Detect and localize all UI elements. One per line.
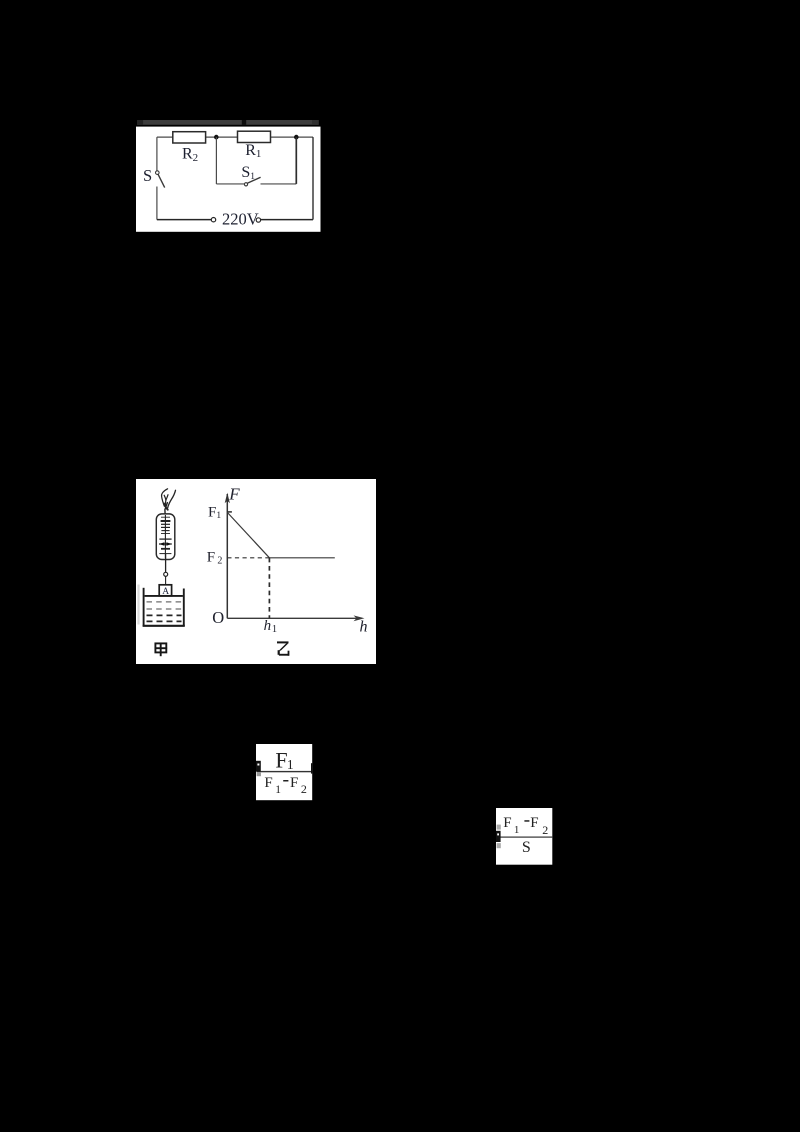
svg-text:F: F	[275, 747, 287, 772]
label yi (乙)	[277, 641, 289, 655]
wire: bottom rail right	[261, 219, 313, 221]
white panel	[136, 127, 321, 232]
terminal: left circle	[211, 218, 215, 222]
svg-text:2: 2	[542, 822, 548, 836]
wire: right vertical	[312, 137, 314, 220]
switch S1	[244, 177, 260, 186]
container right wall	[182, 588, 184, 626]
support squiggle hatching	[161, 488, 175, 509]
svg-text:F: F	[228, 484, 240, 503]
block A	[159, 584, 171, 595]
container left wall	[142, 587, 144, 625]
graph x-axis arrowhead	[353, 615, 364, 621]
scan artifact: faint gray strip	[137, 584, 139, 624]
svg-text:1: 1	[287, 757, 294, 772]
formula: F1 over (F1 - F2)	[256, 744, 313, 801]
minus sign	[524, 820, 529, 822]
svg-text:2: 2	[301, 782, 307, 796]
tick F1	[227, 510, 232, 512]
spring scale body	[156, 513, 175, 559]
white formula box	[496, 808, 552, 865]
dashed vertical h1	[268, 557, 270, 618]
dashed level F2	[227, 556, 269, 558]
wire: middle branch vertical	[215, 137, 217, 184]
water dashes row2	[146, 608, 181, 610]
terminal: right circle	[256, 218, 260, 222]
resistor R2	[173, 132, 206, 143]
graph y-axis F	[226, 494, 228, 618]
svg-text:F: F	[503, 815, 511, 831]
container bottom	[142, 624, 184, 626]
edit cursor artifact left	[496, 830, 501, 841]
node: junction dot left	[214, 135, 219, 140]
graph x-axis h	[227, 617, 362, 619]
spring scale top stub	[163, 509, 165, 514]
wire: branch right vertical	[295, 137, 297, 184]
wire: bottom rail left	[157, 219, 211, 221]
hook ring	[163, 572, 167, 576]
water dashes row3	[146, 614, 181, 616]
svg-text:1: 1	[514, 823, 520, 835]
svg-text:F: F	[264, 775, 272, 791]
water dashes row1	[146, 600, 181, 602]
spring scale pointer	[159, 542, 172, 546]
string to block	[164, 576, 166, 585]
panel: circuit figure background	[136, 120, 321, 232]
white formula box	[256, 744, 312, 800]
svg-text:1: 1	[275, 783, 281, 795]
edit cursor artifact right	[311, 763, 312, 773]
wire: left vertical	[156, 137, 158, 171]
fraction bar	[499, 836, 552, 837]
spring scale rod	[164, 515, 166, 558]
node: junction dot right	[294, 135, 299, 140]
svg-text:O: O	[212, 608, 224, 627]
water surface line	[144, 594, 182, 596]
svg-text:220V: 220V	[222, 210, 259, 229]
formula: (F1 - F2) over S	[496, 808, 553, 865]
switch S	[155, 171, 164, 188]
svg-text:S: S	[143, 166, 152, 185]
svg-text:F: F	[530, 815, 538, 831]
spring scale graduations	[159, 517, 171, 553]
label jia (甲)	[154, 643, 167, 656]
svg-text:S: S	[522, 839, 531, 856]
resistor R1	[237, 131, 270, 142]
fraction bar	[256, 770, 312, 771]
scanned gray bar top	[137, 120, 319, 125]
curve: descending segment	[227, 512, 269, 557]
white panel	[136, 479, 376, 664]
panel: experiment figure background	[136, 479, 376, 664]
curve: flat segment	[269, 556, 334, 558]
svg-text:h: h	[359, 618, 367, 635]
water dashes row4	[146, 620, 181, 622]
wire: branch horizontal left	[216, 183, 244, 185]
wire: top rail	[157, 136, 313, 138]
svg-text:F: F	[290, 775, 298, 791]
hook wire	[164, 553, 166, 572]
wire: branch horizontal right	[260, 183, 296, 185]
wire: left vertical lower	[156, 187, 158, 220]
minus sign	[283, 780, 288, 782]
graph y-axis arrowhead	[224, 492, 229, 503]
edit cursor artifact left	[256, 760, 261, 771]
